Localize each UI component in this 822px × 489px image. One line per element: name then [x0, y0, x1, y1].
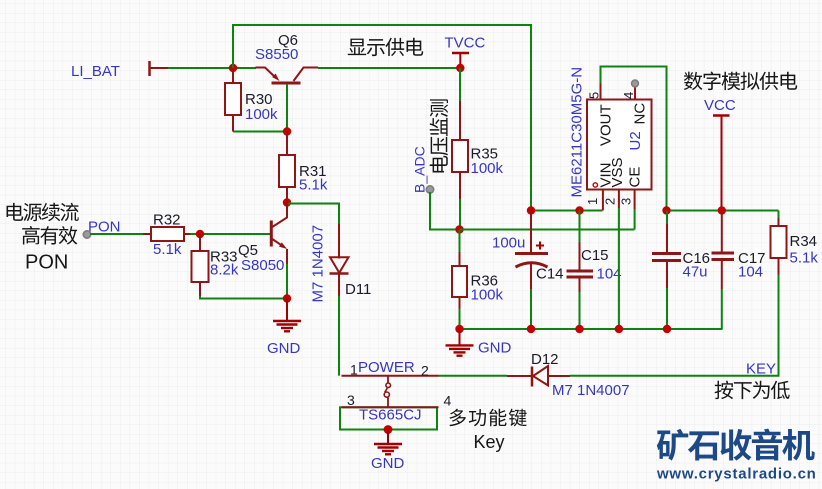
wire LI_BAT to Q6 emitter — [151, 67, 169, 69]
transistor Q5 S8050 NPN — [271, 203, 287, 265]
ground symbol main — [459, 329, 461, 345]
wire VCC rail — [667, 210, 779, 212]
svg-text:GND: GND — [267, 340, 301, 357]
switch POWER pins 1-2 line — [342, 375, 439, 377]
wire D11 to switch pin1 — [338, 296, 340, 376]
resistor R36 — [459, 230, 461, 253]
junction C14 top — [527, 206, 535, 214]
wire switch pin2 to D12 — [439, 375, 508, 377]
pin 1 stub — [602, 190, 604, 211]
wire node to D11 — [287, 204, 339, 225]
junction C17/VCC — [718, 206, 726, 214]
ground symbol Q5 — [286, 299, 288, 322]
wire Q6 collector to TVCC/R35 — [318, 67, 460, 69]
annotation dianyajiance vertical — [430, 99, 448, 172]
power symbol TVCC — [452, 53, 469, 68]
capacitor C15 104 — [567, 211, 594, 293]
svg-text:M7 1N4007: M7 1N4007 — [310, 225, 327, 303]
svg-text:5.1k: 5.1k — [153, 241, 182, 258]
pin 3 stub — [634, 190, 636, 210]
resistor R33 — [199, 234, 201, 251]
svg-text:VOUT: VOUT — [598, 104, 615, 146]
svg-text:4: 4 — [444, 393, 452, 409]
svg-text:TS665CJ: TS665CJ — [359, 407, 422, 424]
capacitor C17 104 — [712, 211, 735, 290]
wire divider to U2 CE — [460, 229, 635, 231]
svg-text:5.1k: 5.1k — [790, 250, 819, 267]
wire C16 bottom — [666, 288, 668, 329]
wire R33 to Q5 emitter — [200, 296, 287, 299]
annotation shuzimonigongdian — [684, 72, 797, 91]
svg-text:M7 1N4007: M7 1N4007 — [552, 382, 630, 399]
svg-text:47u: 47u — [683, 264, 708, 281]
pin 4 stub NC — [634, 84, 636, 100]
svg-text:LI_BAT: LI_BAT — [71, 63, 120, 80]
no-connect marker pin 4 — [632, 80, 639, 87]
junction R36/GND rail — [455, 325, 463, 333]
svg-text:2: 2 — [421, 363, 429, 379]
svg-text:S8550: S8550 — [255, 46, 298, 63]
wire CE down to divider rail — [634, 209, 636, 230]
svg-text:100k: 100k — [245, 106, 278, 123]
svg-text:S8050: S8050 — [241, 257, 284, 274]
svg-text:POWER: POWER — [358, 359, 415, 376]
resistor R34 — [778, 211, 780, 219]
svg-text:PON: PON — [88, 219, 121, 236]
svg-text:VSS: VSS — [609, 157, 626, 187]
wire R32 to Q5 base — [190, 233, 271, 235]
svg-text:C15: C15 — [581, 247, 609, 264]
svg-text:U2: U2 — [627, 131, 644, 150]
svg-text:NC: NC — [632, 103, 649, 125]
svg-text:GND: GND — [371, 455, 405, 472]
op-amp U2 regulator body — [587, 100, 652, 190]
svg-text:KEY: KEY — [746, 361, 776, 378]
junction LI_BAT / top rail — [229, 64, 237, 72]
resistor R30 — [232, 68, 234, 83]
wire VIN rail — [531, 210, 603, 212]
junction VSS/GND rail — [615, 325, 623, 333]
svg-text:104: 104 — [597, 266, 622, 283]
svg-text:PON: PON — [25, 251, 68, 273]
diode D12 M7 1N4007 — [507, 366, 570, 387]
wire C14 bottom — [530, 289, 532, 329]
wire Q5 emitter to gnd node — [286, 264, 288, 299]
svg-text:100k: 100k — [471, 160, 504, 177]
wire C15 bottom — [579, 292, 581, 329]
wire C17 bottom to rail — [721, 289, 723, 329]
svg-text:D12: D12 — [531, 351, 559, 368]
svg-text:GND: GND — [478, 340, 512, 357]
svg-text:4: 4 — [621, 92, 636, 99]
svg-text:100k: 100k — [471, 287, 504, 304]
svg-text:100u: 100u — [492, 235, 525, 252]
port PON — [83, 231, 90, 238]
junction C15 bottom — [575, 325, 583, 333]
svg-text:R32: R32 — [153, 212, 181, 229]
svg-text:CE: CE — [627, 167, 644, 188]
resistor R35 — [459, 68, 461, 101]
junction TVCC — [456, 64, 464, 72]
junction R35/R36/B_ADC/CE — [455, 225, 463, 233]
junction R32/R33 — [196, 230, 204, 238]
svg-text:8.2k: 8.2k — [210, 262, 239, 279]
annotation xianshigongdian — [348, 38, 423, 56]
svg-text:TVCC: TVCC — [445, 35, 486, 52]
wire D12 to KEY / R34 — [570, 266, 779, 376]
svg-text:1: 1 — [350, 362, 358, 378]
wire VOUT loop to VCC rail — [601, 67, 667, 211]
resistor R32 — [143, 233, 151, 235]
svg-text:3: 3 — [619, 198, 634, 205]
junction Q5 emitter / R33 / GND — [283, 294, 291, 302]
switch body TS665CJ box — [340, 407, 437, 429]
annotation anxiaweidi — [715, 381, 790, 400]
wire B_ADC to divider — [430, 192, 460, 230]
svg-text:ME6211C30M5G-N: ME6211C30M5G-N — [569, 67, 586, 198]
annotation gaoyouxiao — [22, 226, 77, 245]
junction C14 bottom — [527, 325, 535, 333]
junction R31/Q5/D11 node — [283, 198, 291, 206]
svg-text:104: 104 — [738, 264, 763, 281]
transistor Q6 S8550 PNP — [256, 68, 319, 84]
junction switch to GND — [384, 425, 393, 434]
pin 2 stub — [618, 190, 620, 209]
svg-text:VCC: VCC — [704, 97, 736, 114]
capacitor C16 47u — [652, 211, 681, 289]
pin 1 indicator circle — [593, 183, 597, 187]
wire VSS to ground rail — [618, 208, 620, 329]
svg-text:2: 2 — [603, 198, 618, 205]
ground rail — [460, 328, 723, 330]
annotation duogongnengjian — [449, 409, 526, 427]
capacitor C14 100u polarized — [515, 211, 548, 290]
wire Q6 base down — [286, 84, 288, 132]
svg-text:B_ADC: B_ADC — [412, 146, 428, 193]
switch button contacts — [384, 376, 390, 408]
pin LI_BAT port bar — [148, 61, 151, 76]
port B_ADC — [426, 186, 433, 193]
watermark logo kuangshishouyinji — [657, 429, 815, 461]
junction R30/R31/Q6 base — [283, 127, 291, 135]
annotation dianyuanxuliu — [7, 203, 79, 221]
power symbol VCC — [713, 116, 730, 211]
resistor R31 — [286, 132, 288, 156]
diode D11 M7 1N4007 — [330, 224, 349, 296]
svg-text:5: 5 — [587, 92, 602, 99]
junction C16 bottom — [663, 325, 671, 333]
wire LI_BAT top rail to U2 VIN — [233, 25, 531, 211]
junction C16 top — [662, 206, 670, 214]
svg-text:Key: Key — [474, 432, 505, 452]
svg-text:D11: D11 — [345, 281, 371, 298]
svg-text:R34: R34 — [790, 233, 818, 250]
wire PON to R32 — [90, 233, 145, 235]
junction C15 top — [575, 206, 583, 214]
svg-text:1: 1 — [585, 198, 600, 205]
pin 5 stub — [600, 84, 602, 100]
svg-text:www.crystalradio.cn: www.crystalradio.cn — [656, 466, 817, 483]
svg-text:5.1k: 5.1k — [299, 177, 328, 194]
svg-text:C14: C14 — [536, 266, 564, 283]
svg-text:3: 3 — [347, 392, 355, 408]
switch pins 3-4 line — [342, 406, 439, 408]
ground symbol switch — [387, 430, 389, 445]
